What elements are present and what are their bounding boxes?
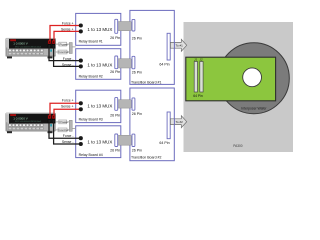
svg-text:Sense +: Sense + [61,105,74,109]
svg-text:J1: J1 [194,57,197,61]
probe card board (green) [186,57,276,101]
wire sense- #1 [54,49,80,67]
wire force+ #1 [50,26,79,41]
terminal circles relay #2 [79,59,83,63]
svg-text:Transition Board #1: Transition Board #1 [131,80,161,84]
transition board 26-pin connectors [132,19,135,146]
wire sense+ #2 [54,109,79,115]
power-control link #2 [55,120,75,132]
svg-text:Transition Board #2: Transition Board #2 [131,155,161,159]
terminal circles relay #4 [79,136,83,140]
svg-text:1 0.0000 V: 1 0.0000 V [13,42,28,46]
svg-text:Relay Board #3: Relay Board #3 [79,118,103,122]
SMU instrument #1 [6,38,56,58]
svg-text:Force +: Force + [62,22,74,26]
svg-text:1 to 13 MUX: 1 to 13 MUX [87,139,112,144]
grey ribbon cable relay1-TB1 [117,22,131,31]
transition board #1 box [130,10,174,84]
relay board #4 box [76,126,121,158]
relay board #2 box [76,49,121,80]
svg-text:To #1: To #1 [176,44,184,48]
svg-text:26 Pin: 26 Pin [110,36,120,40]
terminal circles relay #1 [79,23,83,27]
interposer wafer [218,43,289,114]
svg-text:Force -: Force - [63,57,74,61]
svg-text:26 Pin: 26 Pin [132,36,142,40]
svg-text:Relay Board #1: Relay Board #1 [79,39,103,43]
svg-text:64 Pin: 64 Pin [159,141,169,145]
relay board #3 box [76,90,121,122]
SMU instrument #2 [6,113,56,133]
connector J1 [194,62,197,93]
svg-text:Sense -: Sense - [62,63,74,67]
svg-text:Interposer Wafer: Interposer Wafer [241,106,267,110]
relay board 26-pin connectors [115,19,118,146]
grey ribbon cable relay4-TB2 [117,135,131,145]
svg-text:1 to 13 MUX: 1 to 13 MUX [87,104,112,109]
wire sense- #2 [54,123,80,144]
wire force+ #2 [50,103,79,115]
grey ribbon cable relay2-TB1 [117,59,131,68]
arrow To #1 [170,39,186,51]
svg-text:Force +: Force + [62,99,74,103]
svg-text:26 Pin: 26 Pin [132,71,142,75]
terminal circles relay #3 [79,101,83,105]
wire force- #1 [49,49,79,61]
wire force- #2 [49,123,79,139]
svg-text:26 Pin: 26 Pin [132,149,142,153]
svg-text:J2: J2 [200,57,203,61]
power-control link #1 [55,42,75,54]
svg-text:To #2: To #2 [176,120,184,124]
svg-text:Sense -: Sense - [62,140,74,144]
wafer hole [243,68,262,87]
svg-text:Sense +: Sense + [61,27,74,31]
svg-text:64 Pin: 64 Pin [193,94,203,98]
svg-text:Relay Board #4: Relay Board #4 [79,153,103,157]
svg-text:26 Pin: 26 Pin [110,149,120,153]
transition board #2 box [130,88,174,161]
svg-text:26 Pin: 26 Pin [110,113,120,117]
wire sense+ #1 [54,31,79,41]
svg-text:26 Pin: 26 Pin [110,70,120,74]
svg-text:1 to 13 MUX: 1 to 13 MUX [87,62,112,67]
probe station PA300 [184,22,294,152]
svg-text:64 Pin: 64 Pin [159,62,169,66]
svg-text:PA300: PA300 [233,144,243,148]
grey ribbon cable relay3-TB2 [117,100,131,108]
svg-text:26 Pin: 26 Pin [132,112,142,116]
svg-text:Force -: Force - [63,134,74,138]
arrow To #2 [170,116,186,128]
relay board #1 box [76,13,121,45]
svg-text:Relay Board #2: Relay Board #2 [79,75,103,79]
connector J2 [200,62,203,93]
svg-text:1 to 13 MUX: 1 to 13 MUX [87,27,112,32]
